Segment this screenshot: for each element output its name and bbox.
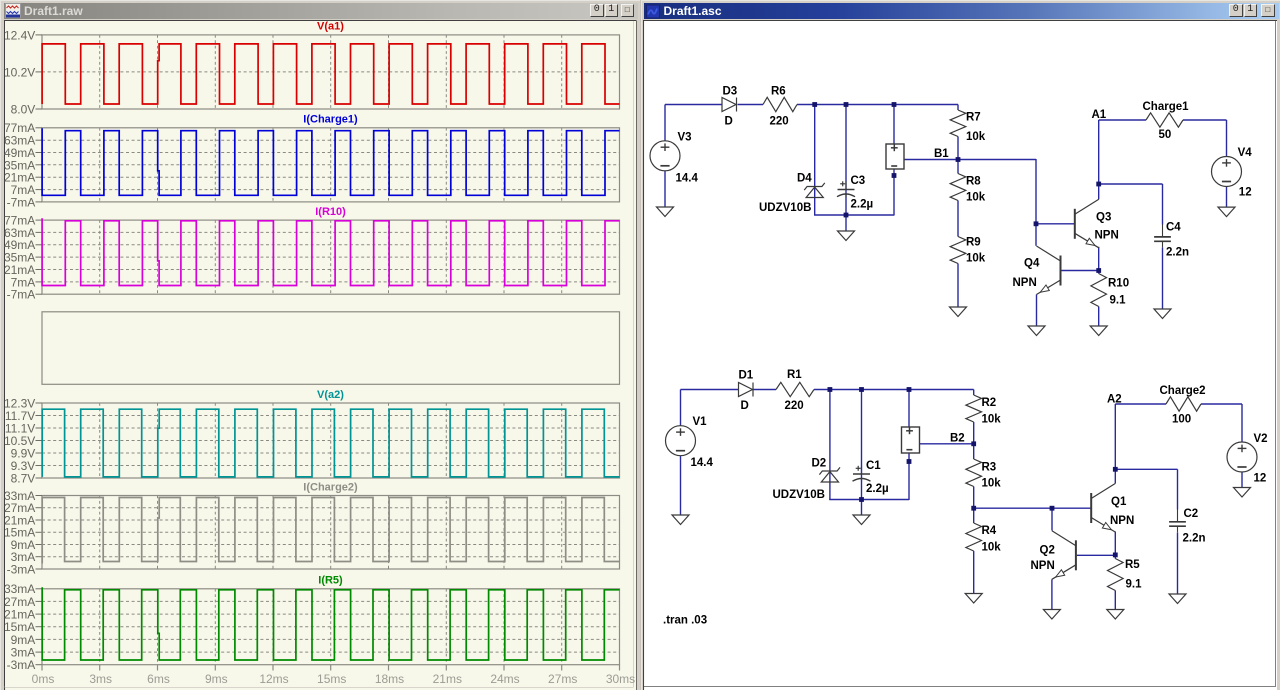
schematic canvas — [645, 21, 1275, 687]
junction at C4 tap — [1096, 181, 1101, 186]
value 12 of V4 — [1239, 186, 1252, 198]
resistor R1 — [776, 382, 814, 396]
svg-text:10k: 10k — [966, 252, 986, 264]
wire B2 output to divider — [920, 442, 974, 444]
value 100 of Charge2 — [1172, 413, 1191, 425]
svg-text:I(Charge2): I(Charge2) — [303, 481, 358, 493]
svg-text:D: D — [725, 115, 733, 127]
behavioral source B1 box — [886, 144, 904, 169]
resistor R2 — [966, 395, 982, 422]
wire V4 to ground — [1226, 186, 1228, 207]
svg-text:10k: 10k — [982, 477, 1002, 489]
svg-text:-7mA: -7mA — [6, 287, 35, 301]
junction at D4 branch — [812, 102, 817, 107]
node label B2 — [950, 432, 965, 444]
wire V2 to ground — [1241, 471, 1243, 487]
value 9.1 of R10 — [1110, 294, 1127, 306]
svg-text:V4: V4 — [1238, 147, 1253, 159]
wire top rail from V3 to R7 — [665, 103, 958, 105]
svg-text:NPN: NPN — [1031, 560, 1055, 572]
pane 1 title V(a1) — [317, 20, 344, 32]
wire Charge2 to V2 — [1201, 404, 1242, 443]
svg-text:Q3: Q3 — [1096, 211, 1111, 223]
ground at V4 — [1218, 207, 1235, 217]
empty waveform pane 4 — [42, 311, 620, 384]
label Charge1 — [1143, 101, 1190, 113]
junction at C2 tap — [1113, 466, 1118, 471]
active title bar — [644, 3, 1279, 19]
svg-text:C2: C2 — [1184, 508, 1199, 520]
svg-text:NPN: NPN — [1110, 515, 1134, 527]
label R9 — [966, 236, 981, 248]
ground at V2 — [1234, 487, 1251, 497]
wire Q1 collector up to node A2 — [1115, 404, 1166, 484]
value 12 of V2 — [1254, 472, 1267, 484]
node label A1 — [1092, 109, 1107, 121]
junction at Q2 collector feed — [1050, 505, 1055, 510]
label R6 — [771, 85, 786, 97]
svg-text:Q1: Q1 — [1111, 496, 1127, 508]
svg-text:2.2µ: 2.2µ — [866, 483, 889, 495]
waveform pane 1 grid — [42, 34, 620, 108]
spice directive .tran .03 — [663, 614, 707, 626]
svg-text:R2: R2 — [982, 397, 997, 409]
svg-text:NPN: NPN — [1013, 277, 1037, 289]
label C2 — [1184, 508, 1199, 520]
svg-text:.tran .03: .tran .03 — [663, 614, 707, 626]
svg-text:12: 12 — [1239, 186, 1252, 198]
label R3 — [982, 461, 997, 473]
svg-text:24ms: 24ms — [490, 671, 519, 685]
wire B1 source bottom — [893, 169, 895, 216]
waveform pane 3 grid — [42, 220, 620, 294]
ground at clamp rail — [838, 231, 855, 241]
wire B1 output to divider — [904, 158, 958, 160]
wire divider column R7-R8-R9 — [957, 104, 959, 307]
label R8 — [966, 175, 981, 187]
pane 6 y-axis labels — [3, 488, 41, 576]
trace I(R10) — [42, 218, 619, 285]
waveform viewer window Draft1.raw — [0, 0, 640, 690]
wire D4 branch down — [814, 104, 816, 215]
junction at R10 top — [1096, 268, 1101, 273]
transistor Q2 (mirrored) — [1052, 530, 1076, 579]
svg-text:0ms: 0ms — [31, 671, 54, 685]
value 2.2n of C2 — [1183, 532, 1206, 544]
svg-text:-7mA: -7mA — [6, 195, 35, 209]
svg-text:50: 50 — [1159, 129, 1172, 141]
wire Charge1 to V4 — [1183, 120, 1227, 157]
svg-text:12ms: 12ms — [259, 671, 288, 685]
svg-text:C3: C3 — [851, 175, 866, 187]
svg-text:220: 220 — [785, 400, 804, 412]
svg-text:15ms: 15ms — [317, 671, 346, 685]
ground at V3 — [657, 207, 674, 217]
svg-text:I(R5): I(R5) — [318, 574, 343, 586]
waveform pane 2 grid — [42, 127, 620, 201]
schematic window Draft1.asc — [641, 0, 1280, 690]
svg-text:27ms: 27ms — [548, 671, 577, 685]
svg-text:UDZV10B: UDZV10B — [759, 202, 811, 214]
inactive title bar — [4, 3, 638, 19]
svg-text:D4: D4 — [797, 172, 812, 184]
junction at clamp rail C3 — [844, 212, 849, 217]
diode D1 — [739, 382, 754, 396]
wire R10 column — [1098, 270, 1100, 326]
pane 3 title I(R10) — [315, 205, 346, 217]
wire Q2 collector up — [1051, 508, 1053, 530]
svg-text:NPN: NPN — [1095, 229, 1119, 241]
wire C2 branch — [1115, 469, 1177, 509]
type NPN of Q2 — [1031, 560, 1055, 572]
label Q3 — [1096, 211, 1111, 223]
transistor Q3 — [1075, 199, 1099, 248]
resistor Charge2 — [1166, 396, 1201, 410]
svg-text:Q4: Q4 — [1024, 257, 1040, 269]
svg-text:C4: C4 — [1166, 221, 1181, 233]
type NPN of Q1 — [1110, 515, 1134, 527]
resistor R8 — [950, 173, 966, 200]
svg-text:10.2V: 10.2V — [4, 65, 35, 79]
resistor R3 — [966, 459, 982, 487]
pane 2 y-axis labels — [3, 121, 41, 209]
wire C4 to ground — [1162, 247, 1164, 309]
svg-text:30ms: 30ms — [605, 671, 634, 685]
svg-text:V(a1): V(a1) — [317, 20, 344, 32]
svg-text:D3: D3 — [723, 85, 738, 97]
svg-text:I(Charge1): I(Charge1) — [303, 113, 358, 125]
junction at D2 branch — [828, 387, 833, 392]
svg-text:Q2: Q2 — [1040, 544, 1055, 556]
type NPN of Q3 — [1095, 229, 1119, 241]
pane 5 y-axis labels — [3, 396, 41, 485]
capacitor C1 — [853, 465, 871, 482]
wire B2 source bottom — [908, 453, 910, 500]
junction node B1 — [956, 157, 961, 162]
svg-text:12: 12 — [1254, 472, 1267, 484]
svg-text:V(a2): V(a2) — [317, 388, 344, 400]
svg-text:R1: R1 — [787, 369, 802, 381]
waveform window icon — [5, 3, 21, 19]
value D of D3 — [725, 115, 733, 127]
resistor R5 — [1108, 558, 1124, 590]
time axis labels 0ms-30ms — [31, 671, 635, 685]
pane 6 title I(Charge2) — [303, 481, 358, 493]
voltage source V4 — [1212, 156, 1242, 186]
wire C4 branch — [1099, 184, 1163, 225]
junction below B2 source — [907, 459, 912, 464]
node label B1 — [934, 148, 949, 160]
svg-text:10k: 10k — [982, 413, 1002, 425]
waveform pane 5 grid — [42, 403, 620, 478]
svg-text:8.7V: 8.7V — [10, 471, 35, 485]
ground at clamp rail 2 — [853, 515, 870, 525]
wire C3 branch down — [845, 104, 847, 215]
junction below B1 source — [892, 173, 897, 178]
wire base feed from R3-R4 node — [974, 507, 1091, 509]
waveform client area — [4, 20, 637, 690]
zener diode D2 — [819, 467, 840, 482]
svg-text:2.2µ: 2.2µ — [851, 198, 874, 210]
junction at R3-R4 node — [971, 505, 976, 510]
voltage source V1 — [666, 425, 696, 455]
value 14.4 of V3 — [676, 172, 699, 184]
junction at Q3 base feed — [1034, 221, 1039, 226]
wire D2 branch down — [829, 389, 831, 500]
svg-text:R10: R10 — [1108, 277, 1129, 289]
svg-text:D: D — [741, 400, 749, 412]
svg-text:Charge1: Charge1 — [1143, 101, 1190, 113]
junction at C3 branch — [844, 102, 849, 107]
wire B1 source top — [893, 104, 895, 144]
svg-text:2.2n: 2.2n — [1183, 532, 1206, 544]
svg-text:V2: V2 — [1254, 433, 1268, 445]
svg-text:14.4: 14.4 — [676, 172, 699, 184]
label V2 — [1254, 433, 1268, 445]
resistor R9 — [950, 236, 966, 263]
value 9.1 of R5 — [1126, 578, 1143, 590]
svg-text:8.0V: 8.0V — [10, 102, 35, 116]
ground at Q4 emitter — [1028, 326, 1045, 336]
ground at V1 — [672, 515, 689, 525]
wire V3 stem top — [664, 104, 666, 141]
resistor R10 — [1091, 273, 1107, 306]
diode D3 — [722, 97, 737, 111]
ground at R5 — [1107, 609, 1124, 619]
wire Q3 emitter to node — [1098, 246, 1100, 270]
trace I(Charge2) — [42, 497, 619, 563]
wire C1 branch down — [861, 389, 863, 500]
junction at B1 branch — [892, 102, 897, 107]
value 2.2n of C4 — [1166, 246, 1189, 258]
junction at R5 top — [1113, 552, 1118, 557]
label D2 — [812, 457, 827, 469]
svg-text:D2: D2 — [812, 457, 827, 469]
wire V1 to ground — [680, 455, 682, 514]
svg-text:B2: B2 — [950, 432, 965, 444]
svg-text:2.2n: 2.2n — [1166, 246, 1189, 258]
value 2.2µ of C3 — [851, 198, 874, 210]
pane 7 y-axis labels — [3, 582, 41, 672]
wire clamp ground stub 2 — [861, 499, 863, 515]
waveform pane 7 grid — [42, 588, 620, 664]
label Q1 — [1111, 496, 1127, 508]
svg-text:9.1: 9.1 — [1126, 578, 1143, 590]
transistor Q4 (mirrored) — [1037, 246, 1061, 295]
pane 7 title I(R5) — [318, 574, 343, 586]
capacitor C3 — [837, 181, 855, 198]
label C3 — [851, 175, 866, 187]
svg-text:-3mA: -3mA — [6, 658, 35, 672]
resistor R4 — [966, 523, 982, 551]
svg-text:R5: R5 — [1125, 559, 1140, 571]
svg-text:UDZV10B: UDZV10B — [773, 489, 825, 501]
svg-text:R3: R3 — [982, 461, 997, 473]
wire base feed from B1 node — [958, 159, 1074, 246]
resistor Charge1 — [1146, 112, 1183, 126]
ground at R4 — [965, 593, 982, 603]
trace I(Charge1) — [42, 128, 619, 195]
time axis ticks — [42, 664, 620, 670]
wire clamp ground stub — [845, 215, 847, 231]
ground at C2 — [1169, 594, 1186, 604]
value 50 of Charge1 — [1159, 129, 1172, 141]
wire V3 to ground — [664, 170, 666, 206]
wire Q2 emitter to ground — [1051, 579, 1053, 609]
node label A2 — [1107, 393, 1122, 405]
wire clamp bottom rail 2 — [829, 498, 909, 500]
svg-text:A1: A1 — [1092, 109, 1107, 121]
wire Q4 emitter to ground — [1036, 294, 1038, 326]
voltage source V2 — [1227, 442, 1257, 472]
svg-text:3ms: 3ms — [89, 671, 112, 685]
svg-text:Charge2: Charge2 — [1160, 385, 1206, 397]
value 10k of R9 — [966, 252, 986, 264]
pane 1 y-axis labels — [3, 28, 41, 116]
value 10k of R4 — [982, 541, 1002, 553]
svg-text:V3: V3 — [678, 131, 692, 143]
label R7 — [966, 111, 981, 123]
svg-text:9.1: 9.1 — [1110, 294, 1127, 306]
voltage source V3 — [650, 140, 680, 170]
ground at R10 — [1090, 326, 1107, 336]
resistor R7 — [950, 110, 966, 137]
svg-text:10k: 10k — [982, 541, 1002, 553]
label D1 — [739, 369, 754, 381]
pane 2 title I(Charge1) — [303, 113, 358, 125]
schematic client area — [643, 20, 1277, 690]
transistor Q1 — [1091, 483, 1115, 532]
svg-text:10k: 10k — [966, 131, 986, 143]
svg-text:6ms: 6ms — [147, 671, 170, 685]
svg-text:R9: R9 — [966, 236, 981, 248]
label V4 — [1238, 147, 1253, 159]
wire Q4 base to R10 node — [1062, 269, 1099, 271]
label Charge2 — [1160, 385, 1206, 397]
svg-text:9ms: 9ms — [204, 671, 227, 685]
label R4 — [982, 525, 997, 537]
svg-text:C1: C1 — [866, 460, 881, 472]
svg-text:14.4: 14.4 — [691, 457, 714, 469]
pane 5 title V(a2) — [317, 388, 344, 400]
value 10k of R8 — [966, 191, 986, 203]
label D3 — [723, 85, 738, 97]
label R2 — [982, 397, 997, 409]
value D of D1 — [741, 400, 749, 412]
wire divider column R2-R3-R4 — [973, 389, 975, 593]
value 220 of R1 — [785, 400, 804, 412]
schematic window icon — [646, 4, 661, 19]
value 10k of R3 — [982, 477, 1002, 489]
wire Q1 emitter to node — [1114, 531, 1116, 554]
label C1 — [866, 460, 881, 472]
label V1 — [693, 416, 708, 428]
wire C2 to ground — [1177, 532, 1179, 594]
junction at B2 branch — [907, 387, 912, 392]
svg-text:100: 100 — [1172, 413, 1191, 425]
label Q2 — [1040, 544, 1055, 556]
svg-text:10k: 10k — [966, 191, 986, 203]
trace V(a2) — [42, 409, 619, 477]
ground at R9 — [950, 307, 967, 317]
trace V(a1) — [42, 43, 619, 103]
capacitor C4 — [1154, 224, 1171, 247]
junction at C1 branch — [859, 387, 864, 392]
ground at Q2 emitter — [1043, 609, 1060, 619]
wire V1 stem top — [680, 389, 682, 425]
label R5 — [1125, 559, 1140, 571]
label Q4 — [1024, 257, 1040, 269]
waveform pane 6 grid — [42, 495, 620, 569]
svg-text:A2: A2 — [1107, 393, 1122, 405]
svg-text:I(R10): I(R10) — [315, 205, 346, 217]
svg-text:B1: B1 — [934, 148, 949, 160]
label R10 — [1108, 277, 1129, 289]
svg-text:D1: D1 — [739, 369, 754, 381]
capacitor C2 — [1169, 509, 1186, 532]
label D4 — [797, 172, 812, 184]
wire B2 source top — [908, 389, 910, 427]
label R1 — [787, 369, 802, 381]
value 2.2µ of C1 — [866, 483, 889, 495]
junction node B2 — [971, 441, 976, 446]
ground at C4 — [1154, 309, 1171, 319]
junction at clamp rail C1 — [859, 497, 864, 502]
zener diode D4 — [804, 182, 825, 197]
svg-text:12.4V: 12.4V — [4, 28, 35, 42]
pane 3 y-axis labels — [3, 213, 41, 301]
svg-text:R8: R8 — [966, 175, 981, 187]
svg-text:R6: R6 — [771, 85, 786, 97]
wire bottom rail from V1 to R2 — [681, 388, 974, 390]
wire Q2 base to R5 node — [1077, 554, 1115, 556]
svg-text:-3mA: -3mA — [6, 562, 35, 576]
label C4 — [1166, 221, 1181, 233]
wire R5 column — [1114, 554, 1116, 609]
svg-text:21ms: 21ms — [432, 671, 461, 685]
svg-text:220: 220 — [770, 115, 789, 127]
value 10k of R2 — [982, 413, 1002, 425]
svg-text:R7: R7 — [966, 111, 981, 123]
value 220 of R6 — [770, 115, 789, 127]
svg-text:V1: V1 — [693, 416, 708, 428]
value 10k of R7 — [966, 131, 986, 143]
value UDZV10B of D4 — [759, 202, 811, 214]
wire Q3 collector up to node A1 — [1099, 120, 1146, 199]
trace I(R5) — [42, 587, 619, 660]
behavioral source B2 box — [902, 427, 920, 453]
value 14.4 of V1 — [691, 457, 714, 469]
wire bottom rail of clamp — [814, 214, 894, 216]
type NPN of Q4 — [1013, 277, 1037, 289]
svg-text:18ms: 18ms — [374, 671, 403, 685]
value UDZV10B of D2 — [773, 489, 825, 501]
resistor R6 — [763, 97, 797, 111]
svg-text:R4: R4 — [982, 525, 997, 537]
label V3 — [678, 131, 692, 143]
